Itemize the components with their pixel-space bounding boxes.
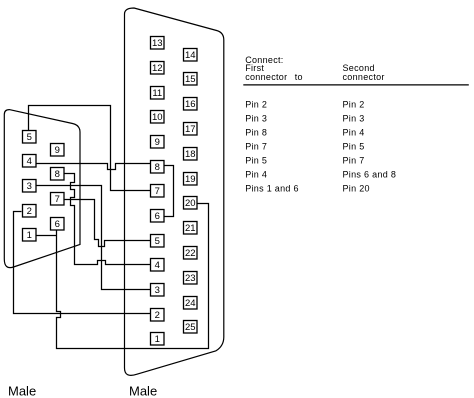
svg-text:20: 20 [185,198,196,209]
svg-text:1: 1 [27,230,32,241]
svg-text:Pin 2: Pin 2 [245,100,267,110]
svg-text:13: 13 [152,38,163,49]
svg-text:Male: Male [8,384,36,398]
svg-text:22: 22 [185,248,196,259]
svg-text:10: 10 [152,112,163,123]
svg-text:3: 3 [155,285,160,296]
svg-text:18: 18 [185,149,196,160]
svg-text:Pin 20: Pin 20 [343,183,370,193]
svg-text:8: 8 [155,162,160,173]
svg-text:Male: Male [129,384,157,398]
svg-text:25: 25 [185,322,196,333]
svg-text:Pin 3: Pin 3 [245,114,267,124]
svg-text:3: 3 [27,181,32,192]
svg-text:1: 1 [155,334,160,345]
svg-text:Pin 3: Pin 3 [343,114,365,124]
svg-text:Pins 1 and 6: Pins 1 and 6 [245,183,299,193]
svg-text:24: 24 [185,298,196,309]
svg-text:Pin 5: Pin 5 [245,156,267,166]
svg-text:Pin 2: Pin 2 [343,100,365,110]
svg-text:Pin 7: Pin 7 [245,142,267,152]
svg-text:5: 5 [155,236,160,247]
svg-text:Pin 7: Pin 7 [343,156,365,166]
svg-text:17: 17 [185,124,196,135]
svg-text:4: 4 [155,260,160,271]
svg-text:2: 2 [155,310,160,321]
svg-text:14: 14 [185,50,196,61]
svg-text:4: 4 [27,156,32,167]
svg-text:19: 19 [185,174,196,185]
svg-text:connector: connector [245,72,287,82]
svg-text:23: 23 [185,273,196,284]
svg-text:to: to [295,72,303,82]
svg-text:11: 11 [152,88,162,99]
svg-text:6: 6 [155,211,160,222]
svg-text:9: 9 [155,137,160,148]
svg-text:21: 21 [185,223,196,234]
svg-text:Pin 5: Pin 5 [343,142,365,152]
svg-text:7: 7 [55,194,60,205]
svg-text:16: 16 [185,99,196,110]
svg-text:Pin 8: Pin 8 [245,128,267,138]
svg-text:8: 8 [55,169,60,180]
svg-text:connector: connector [343,72,385,82]
svg-text:5: 5 [27,132,32,143]
svg-text:6: 6 [55,219,60,230]
svg-text:2: 2 [27,206,32,217]
svg-text:Pin 4: Pin 4 [343,128,365,138]
svg-text:Pin 4: Pin 4 [245,169,267,179]
svg-text:15: 15 [185,74,196,85]
svg-text:9: 9 [55,145,60,156]
svg-text:Pins 6 and 8: Pins 6 and 8 [343,169,397,179]
svg-text:7: 7 [155,186,160,197]
svg-text:12: 12 [152,63,163,74]
